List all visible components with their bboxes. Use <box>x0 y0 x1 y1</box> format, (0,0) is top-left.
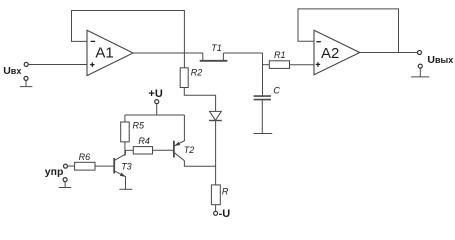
pin minus A2 <box>316 41 321 43</box>
pin plus A1 <box>90 62 95 67</box>
pin plus A2 <box>316 62 321 66</box>
transistor T2 (PNP) <box>174 115 216 166</box>
capacitor C <box>254 86 281 100</box>
svg-text:упр: упр <box>45 166 64 178</box>
wire R6 to T3 base <box>95 165 114 167</box>
svg-text:T2: T2 <box>184 145 195 155</box>
wire R4 to T2 base <box>153 149 174 151</box>
svg-text:-U: -U <box>219 208 231 220</box>
op-amp A1 <box>87 30 133 75</box>
svg-text:Uвых: Uвых <box>427 54 453 66</box>
svg-text:+U: +U <box>148 88 162 100</box>
wire column to R4 <box>125 149 133 151</box>
resistor R <box>211 185 229 205</box>
ground at input <box>20 76 32 86</box>
diode VD <box>209 111 222 120</box>
pin minus A1 <box>91 40 96 42</box>
resistor R1 <box>269 50 289 68</box>
resistor R5 <box>121 115 145 142</box>
ground at upr <box>59 178 71 188</box>
wire A2 feedback <box>298 9 399 53</box>
transistor T3 (NPN) <box>114 150 132 189</box>
transistor T1 <box>200 43 228 61</box>
svg-text:R: R <box>222 187 229 197</box>
wire diode to R and T2 collector column <box>215 121 217 185</box>
wire R1 to A2 + <box>290 64 315 66</box>
node Uvyx output terminal <box>418 51 422 55</box>
svg-text:A1: A1 <box>95 45 113 62</box>
svg-text:A2: A2 <box>321 45 339 62</box>
wire +U stem <box>156 104 158 115</box>
svg-text:R2: R2 <box>191 68 203 78</box>
wire A1 output <box>133 52 203 54</box>
svg-text:Uвх: Uвх <box>3 65 21 77</box>
svg-text:R4: R4 <box>138 136 150 146</box>
node -U supply terminal <box>214 208 231 220</box>
svg-text:C: C <box>273 86 280 96</box>
resistor R6 <box>75 152 95 170</box>
node Uvx input terminal <box>24 62 28 66</box>
svg-text:R5: R5 <box>133 121 145 131</box>
wire node down to capacitor <box>262 53 264 96</box>
wire R5 bottom column <box>124 142 126 156</box>
node +U supply terminal <box>148 88 162 103</box>
node upr control terminal <box>64 164 68 168</box>
svg-text:T3: T3 <box>121 162 132 172</box>
resistor R4 <box>133 136 152 154</box>
svg-text:R6: R6 <box>79 152 91 162</box>
wire R to -U <box>215 205 217 212</box>
wire node to R1 <box>263 64 270 66</box>
wire upr to R6 <box>68 165 75 167</box>
op-amp A2 <box>314 30 360 74</box>
wire input to A1 + <box>28 64 87 66</box>
wire A2 output <box>360 52 418 54</box>
ground at capacitor <box>254 100 273 133</box>
wire T1 to node <box>223 52 262 54</box>
wire A1 feedback <box>72 11 185 68</box>
svg-text:R1: R1 <box>274 50 286 60</box>
ground at T3 emitter <box>119 188 132 190</box>
wire +U rail <box>125 114 184 116</box>
wire R2 bottom to diode <box>184 88 215 112</box>
ground at output <box>411 64 429 77</box>
resistor R2 <box>180 68 202 88</box>
svg-text:T1: T1 <box>211 43 222 53</box>
